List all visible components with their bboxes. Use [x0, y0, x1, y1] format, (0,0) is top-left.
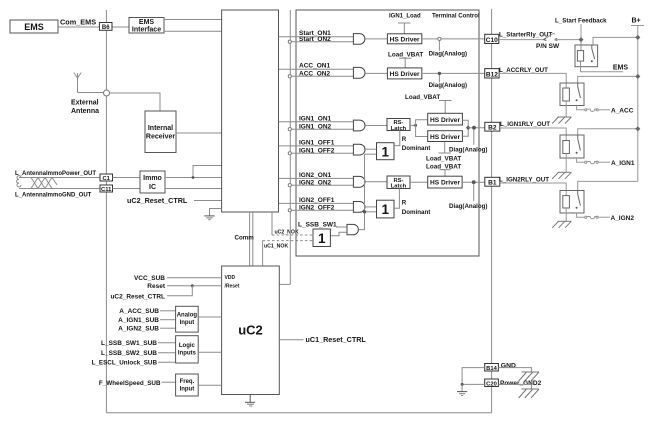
wire ssb to or1 input2 — [365, 153, 377, 155]
switch P/N SW — [544, 34, 582, 41]
svg-text:F_WheelSpeed_SUB: F_WheelSpeed_SUB — [99, 380, 161, 387]
fuse A_IGN1 — [585, 161, 610, 164]
svg-text:B+: B+ — [632, 18, 641, 25]
block RS latch ign2 — [387, 176, 410, 189]
block HS Driver ign1 A — [428, 113, 463, 125]
wire uC1_NOK drop — [262, 241, 264, 266]
block EMS Interface — [129, 18, 164, 34]
svg-text:IC: IC — [149, 184, 156, 191]
svg-text:Diag(Analog): Diag(Analog) — [449, 203, 488, 210]
node start feedback junction — [578, 37, 583, 42]
block uC1 main box — [222, 10, 279, 212]
block OR 1 ign2 — [377, 200, 395, 218]
wire B14 to chassis — [498, 368, 531, 372]
svg-text:Latch: Latch — [391, 183, 407, 189]
connector B6 — [99, 23, 112, 32]
svg-text:A_IGN1: A_IGN1 — [611, 160, 635, 167]
svg-text:L_StarterRly_OUT: L_StarterRly_OUT — [499, 31, 553, 38]
block HS Driver start — [387, 34, 421, 44]
wire latch1 out — [410, 124, 416, 126]
svg-text:uC1_Reset_CTRL: uC1_Reset_CTRL — [306, 335, 367, 344]
node gnd join — [461, 383, 464, 386]
svg-text:EMS: EMS — [139, 19, 155, 26]
svg-text:L_SSB_SW1: L_SSB_SW1 — [298, 222, 337, 229]
block HS Driver ign2 — [428, 176, 462, 188]
svg-text:uC2_Reset_CTRL: uC2_Reset_CTRL — [127, 196, 188, 205]
wire C11 to Immo IC — [113, 188, 141, 190]
antenna symbol — [74, 73, 81, 93]
load symbol IGN1_Load — [398, 23, 411, 34]
ground chassis B14 — [519, 372, 539, 381]
svg-text:A_ACC: A_ACC — [611, 108, 634, 115]
node bus2 tap row4 — [288, 152, 291, 155]
wire relay1 coil to EMS — [581, 61, 624, 72]
connector C10 — [485, 34, 499, 44]
wire uC2_Reset_CTRL to uC1 — [194, 200, 222, 202]
wire latch2 to HS ign2 — [410, 181, 428, 183]
svg-text:Analog: Analog — [177, 313, 198, 319]
wire A_IGN1_SUB — [160, 319, 176, 321]
gate AND start — [353, 34, 364, 45]
wire or2 to latch2 R — [394, 189, 399, 209]
svg-text:Diag(Analog): Diag(Analog) — [429, 82, 468, 89]
svg-text:P/N SW: P/N SW — [536, 43, 560, 50]
svg-text:Input: Input — [180, 320, 195, 326]
wire HS2 out to B12 — [422, 72, 485, 74]
wire EMS Interface to uC1 upper — [164, 19, 222, 21]
ground signal B14 — [457, 384, 467, 395]
svg-text:EMS: EMS — [613, 65, 629, 72]
svg-text:L_ESCL_Unlock_SUB: L_ESCL_Unlock_SUB — [92, 359, 158, 366]
node bus2 tap row2 — [288, 75, 291, 78]
wire Comm bus line2 — [252, 212, 254, 266]
svg-text:IGN2_OFF1: IGN2_OFF1 — [299, 197, 335, 204]
terminal B+ bar — [631, 25, 644, 27]
node B+ tap2 — [635, 74, 640, 79]
wire uC2_NOK dashed — [272, 234, 313, 236]
svg-text:uC2_Reset_CTRL: uC2_Reset_CTRL — [110, 293, 165, 300]
wire bottom boundary — [106, 412, 491, 414]
wire drivers join — [462, 120, 468, 136]
wire analog to uC2 — [198, 316, 221, 318]
wire Reset — [167, 285, 222, 287]
wire C10 to switch — [499, 39, 544, 41]
ground chassis relay4 coil — [552, 208, 571, 228]
block Logic Inputs — [176, 336, 199, 363]
antenna coil L1 — [17, 176, 100, 189]
node bus2 tap row5 — [288, 184, 291, 187]
svg-text:L_IGN1RLY_OUT: L_IGN1RLY_OUT — [500, 121, 550, 128]
wire gate1 to HS1 — [365, 38, 388, 40]
svg-text:1: 1 — [381, 144, 389, 159]
svg-text:Load_VBAT: Load_VBAT — [405, 94, 440, 101]
wire Immo IC power to uC1 — [165, 177, 222, 179]
svg-text:Freq.: Freq. — [180, 379, 195, 385]
ground chassis C20 — [519, 389, 539, 398]
label R Dominant ign2 — [402, 199, 431, 215]
gate AND ign1 on — [353, 120, 365, 131]
svg-text:HS Driver: HS Driver — [430, 134, 460, 141]
svg-text:A_IGN2_SUB: A_IGN2_SUB — [118, 325, 159, 332]
wire gate2 to HS2 — [365, 72, 387, 74]
label R Dominant ign1 — [402, 136, 431, 152]
svg-text:A_IGN2: A_IGN2 — [611, 215, 635, 222]
wire B1 to relay4 coil — [500, 183, 566, 196]
svg-text:L_AntennaImmoPower_OUT: L_AntennaImmoPower_OUT — [15, 171, 96, 177]
wire IGN1_OFF2 — [290, 152, 354, 154]
wire EMS to B6 — [58, 26, 100, 28]
wire freq to uC2 — [198, 384, 221, 386]
wire latch1 split to drivers — [416, 120, 428, 137]
wire L_SSB_SW1_SUB — [158, 342, 176, 344]
wire ssb riser — [359, 154, 365, 229]
svg-text:L_SSB_SW2_SUB: L_SSB_SW2_SUB — [101, 350, 157, 357]
wire gate6 to or2 — [365, 206, 376, 208]
svg-text:C1: C1 — [102, 176, 110, 182]
wire receiver to uC1 — [176, 132, 222, 134]
wire F_WheelSpeed_SUB — [162, 381, 176, 383]
wire B+ to relay1 switch — [593, 37, 638, 45]
wire diag stem row3 — [473, 130, 475, 145]
wire IGN1_ON2 — [290, 128, 354, 130]
wire relay2 switch to fuse — [577, 106, 585, 110]
wire bus2 vertical — [289, 10, 291, 284]
node B+ tap3 — [635, 126, 640, 131]
svg-text:VCC_SUB: VCC_SUB — [134, 275, 165, 282]
svg-text:Latch: Latch — [391, 126, 407, 132]
wire L_SSB_SW1 to gate7 — [336, 226, 347, 228]
wire diag stem row2 — [438, 75, 440, 83]
wire bus2 to uC2 — [279, 283, 290, 285]
svg-text:Dominant: Dominant — [402, 209, 431, 216]
svg-text:Antenna: Antenna — [71, 108, 99, 115]
wire L_ESCL_Unlock_SUB — [158, 361, 176, 363]
svg-text:Receiver: Receiver — [146, 134, 175, 141]
wire uC1_Reset_CTRL — [279, 339, 303, 341]
svg-text:Internal: Internal — [148, 125, 173, 132]
node bus2 tap row1 — [288, 40, 291, 43]
wire IGN2_ON2 — [290, 184, 354, 186]
svg-text:HS Driver: HS Driver — [430, 180, 460, 187]
svg-text:L_SSB_SW1_SUB: L_SSB_SW1_SUB — [101, 340, 157, 347]
svg-text:GND: GND — [501, 362, 516, 369]
relay K3 ign1 — [560, 135, 584, 158]
wire outer right boundary — [491, 9, 493, 413]
wire B6 down long vertical to bottom — [105, 30, 107, 413]
svg-text:IGN1_OFF1: IGN1_OFF1 — [299, 139, 335, 146]
svg-text:Dominant: Dominant — [402, 145, 431, 152]
relay K4 ign2 — [560, 191, 584, 214]
node diag tap row1 — [438, 37, 441, 40]
wire B2 to relay3 coil — [500, 128, 566, 141]
svg-text:EMS: EMS — [24, 22, 44, 32]
fuse A_ACC — [585, 109, 610, 112]
block RS latch ign1 — [387, 119, 410, 132]
connector C11 — [100, 185, 113, 193]
wire relay3 switch to fuse — [577, 158, 585, 162]
svg-text:HS Driver: HS Driver — [390, 36, 420, 43]
svg-text:Com_EMS: Com_EMS — [60, 18, 96, 27]
wire B12 to relay2 coil — [499, 73, 566, 88]
wire C20 to chassis — [498, 384, 531, 389]
node B+ tap1 — [635, 35, 640, 40]
svg-text:Inputs: Inputs — [178, 351, 197, 357]
ground uC2 — [245, 395, 255, 406]
gate AND ssb — [347, 224, 358, 234]
wire B+ to relay4 switch — [578, 181, 638, 190]
connector B12 — [485, 69, 499, 79]
svg-text:uC2: uC2 — [238, 323, 263, 338]
block Analog Input — [176, 306, 199, 332]
svg-text:C11: C11 — [101, 187, 112, 193]
wire or1 to latch1 R — [394, 131, 400, 146]
wire uC1_NOK dashed — [263, 240, 313, 242]
wire gate4 to or1 — [365, 148, 376, 150]
svg-text:Interface: Interface — [132, 27, 161, 34]
svg-text:HS Driver: HS Driver — [430, 117, 460, 124]
ground chassis relay3 coil — [552, 154, 571, 179]
node ssb junction — [363, 210, 366, 213]
wire EMS Interface to uC1 lower — [164, 30, 222, 32]
connector B1 — [485, 177, 500, 186]
wire IGN1_ON1 — [279, 121, 354, 123]
wire ign2 out to B1 — [462, 181, 485, 183]
node bus2 tap row6 — [288, 209, 291, 212]
wire B+ vertical — [637, 26, 639, 182]
svg-text:Comm: Comm — [235, 235, 255, 242]
load symbol driverB below — [439, 142, 452, 153]
wire uC2_NOK drop — [271, 212, 273, 235]
svg-text:1: 1 — [381, 202, 389, 217]
wire ign1 out to B2 — [468, 127, 485, 129]
svg-text:C20: C20 — [486, 381, 497, 387]
load symbol ign2 driver — [440, 170, 451, 177]
svg-text:1: 1 — [318, 231, 326, 246]
block HS Driver acc — [387, 68, 421, 79]
svg-text:HS Driver: HS Driver — [390, 71, 420, 78]
wire Immo IC gnd to uC1 — [165, 188, 222, 190]
wire ssb to or2 input2 — [365, 211, 377, 213]
block Immo IC — [140, 171, 165, 193]
wire Start_ON2 — [290, 41, 354, 43]
svg-text:R: R — [402, 199, 407, 206]
svg-text:Immo: Immo — [143, 175, 162, 182]
gate AND ign1 off — [353, 144, 365, 155]
svg-text:L_AntennaImmoGND_OUT: L_AntennaImmoGND_OUT — [15, 193, 92, 199]
wire Comm bus line1 — [249, 212, 251, 266]
block OR 1 nok — [313, 229, 330, 247]
wire B6 to EMS Interface — [113, 26, 130, 28]
wire L_Start Feedback drop — [580, 24, 582, 51]
node diag tap row5 — [472, 180, 476, 184]
block Freq Input — [176, 374, 199, 396]
node reset junction — [191, 284, 194, 287]
wire uC2_Reset_CTRL join — [167, 286, 192, 296]
svg-text:/Reset: /Reset — [225, 284, 240, 290]
svg-text:L_IGN2RLY_OUT: L_IGN2RLY_OUT — [499, 176, 549, 183]
node antenna junction — [104, 90, 110, 96]
svg-text:B1: B1 — [488, 180, 497, 187]
wire B+ to relay2 switch — [578, 76, 638, 83]
block OR 1 ign1 — [377, 143, 395, 160]
wire B14 C20 left join — [462, 368, 485, 385]
node diag tap row2 — [438, 72, 441, 75]
wire relay4 switch to fuse — [577, 213, 585, 217]
node latch1 out junction — [414, 124, 417, 127]
connector C20 — [485, 379, 499, 387]
wire diag stem row5 — [473, 184, 475, 201]
fuse A_IGN2 — [585, 216, 610, 219]
gate AND acc — [353, 67, 365, 78]
svg-text:A_ACC_SUB: A_ACC_SUB — [119, 308, 159, 315]
svg-text:B2: B2 — [488, 125, 497, 132]
svg-text:uC1_NOK: uC1_NOK — [264, 244, 288, 250]
wire HS1 out to C10 — [422, 38, 485, 40]
svg-text:B6: B6 — [102, 25, 110, 31]
svg-text:Reset: Reset — [147, 283, 166, 290]
svg-text:R: R — [402, 136, 407, 143]
relay K2 acc — [560, 83, 584, 106]
connector B2 — [485, 122, 500, 131]
wire A_IGN2_SUB — [160, 327, 176, 329]
block uC2 — [222, 266, 280, 395]
svg-text:Load_VBAT: Load_VBAT — [388, 52, 423, 59]
svg-text:Diag(Analog): Diag(Analog) — [449, 146, 488, 153]
wire or3 to gate7 — [330, 232, 347, 235]
node drivers join — [466, 125, 471, 130]
connector C1 — [100, 174, 113, 182]
svg-text:External: External — [71, 100, 99, 107]
wire IGN2_OFF2 — [290, 209, 354, 211]
wire diag stem row1 — [438, 41, 440, 51]
svg-text:Load_VBAT: Load_VBAT — [426, 156, 461, 163]
load symbol row3 top — [439, 101, 452, 114]
node immo junction — [192, 176, 195, 179]
connector B14 — [485, 364, 499, 372]
wire gate3 to latch1 — [365, 125, 387, 127]
svg-text:C10: C10 — [486, 37, 498, 44]
svg-text:Power_GND2: Power_GND2 — [500, 380, 542, 387]
wire B+ to relay3 switch — [578, 129, 638, 135]
ground uC1 — [204, 209, 221, 220]
svg-text:Input: Input — [180, 387, 195, 393]
block Internal Receiver — [145, 111, 176, 153]
ground chassis relay2 coil — [552, 101, 571, 124]
svg-text:B12: B12 — [486, 71, 498, 78]
svg-text:B14: B14 — [486, 366, 497, 372]
wire B6 stub top — [105, 10, 107, 23]
gate AND ign2 on — [353, 176, 365, 187]
wire node to receiver — [110, 93, 161, 111]
wire L_SSB_SW2_SUB — [158, 352, 176, 354]
svg-text:ACC_ON1: ACC_ON1 — [299, 63, 330, 70]
svg-text:Terminal Control: Terminal Control — [432, 14, 480, 20]
label External Antenna — [71, 100, 99, 116]
load symbol row2 — [399, 58, 412, 68]
wire ACC_ON2 — [290, 75, 354, 77]
wire VCC_SUB — [167, 277, 222, 279]
svg-text:uC2_NOK: uC2_NOK — [275, 230, 299, 236]
wire gate5 to latch2 — [365, 181, 387, 183]
wire logic to uC2 — [198, 351, 221, 353]
svg-text:A_IGN1_SUB: A_IGN1_SUB — [118, 317, 159, 324]
block HS Driver ign1 B — [428, 131, 463, 142]
wire A_ACC_SUB — [160, 310, 176, 312]
wire Start_ON1 — [279, 36, 354, 38]
wire ACC_ON1 — [279, 68, 354, 70]
svg-text:IGN1_ON1: IGN1_ON1 — [299, 115, 332, 122]
svg-text:IGN2_ON1: IGN2_ON1 — [299, 172, 332, 179]
gate AND ign2 off — [353, 202, 365, 213]
block EMS — [10, 20, 58, 33]
svg-text:L_Start Feedback: L_Start Feedback — [555, 18, 607, 25]
svg-text:VDD: VDD — [225, 275, 236, 281]
wire antenna to node — [78, 92, 104, 94]
svg-text:IGN1_Load: IGN1_Load — [389, 14, 421, 20]
wire IGN2_ON1 — [279, 177, 354, 179]
block terminal control inner box — [296, 10, 479, 256]
node bus2 tap row3 — [288, 128, 291, 131]
svg-text:Logic: Logic — [179, 343, 196, 349]
relay K1 starter — [575, 45, 598, 67]
node diag tap row3 — [472, 126, 476, 130]
svg-text:Diag(Analog): Diag(Analog) — [429, 50, 468, 57]
wire IGN2_OFF1 — [279, 202, 354, 204]
wire C1 to Immo IC — [113, 177, 141, 179]
wire IGN1_OFF1 — [279, 145, 354, 147]
wire immo branch riser — [193, 166, 222, 178]
